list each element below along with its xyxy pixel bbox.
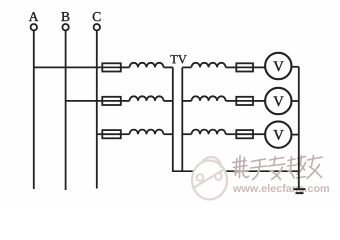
wire phase B vertical	[65, 31, 67, 191]
label C	[93, 12, 101, 21]
wire branch 3 right of core	[182, 133, 191, 135]
TV core line right	[181, 67, 183, 171]
wire	[226, 100, 237, 102]
inductor L5	[192, 96, 226, 101]
wire	[121, 66, 130, 68]
fuse F3	[102, 130, 121, 138]
wire phase C vertical	[96, 31, 98, 189]
terminal A	[31, 24, 37, 30]
TV neutral bottom wire	[172, 170, 299, 172]
wire	[253, 100, 265, 102]
inductor L3	[130, 130, 164, 135]
terminal C	[94, 24, 100, 30]
watermark text dianzifashaoyou	[233, 156, 323, 180]
fuse F5	[236, 97, 253, 105]
watermark text www.elecfans.com	[233, 184, 329, 192]
wire branch 2 left	[66, 100, 103, 102]
wire	[226, 133, 237, 135]
inductor L2	[130, 96, 164, 101]
wire	[121, 100, 130, 102]
wire phase A vertical	[33, 31, 35, 190]
wire	[121, 133, 130, 135]
inductor L4	[192, 63, 226, 68]
wire branch 2 right of core	[182, 100, 191, 102]
fuse F1	[102, 63, 121, 71]
voltmeter V3	[265, 121, 291, 147]
wire branch 3 left	[97, 133, 103, 135]
label A	[29, 12, 39, 21]
voltmeter V2	[265, 88, 291, 114]
wire	[164, 100, 173, 102]
wire	[164, 133, 173, 135]
ground	[294, 189, 306, 193]
wire V1 to bus	[291, 66, 299, 68]
terminal B	[62, 24, 68, 30]
label TV	[170, 55, 186, 63]
voltmeter V1	[265, 53, 291, 79]
watermark logo	[192, 157, 227, 200]
wire	[164, 66, 173, 68]
TV core line left	[172, 67, 174, 171]
wire	[253, 66, 265, 68]
wire branch 1 right of core	[182, 66, 191, 68]
inductor L1	[130, 63, 164, 68]
bus right vertical	[298, 67, 300, 189]
label B	[61, 12, 69, 21]
fuse F6	[236, 130, 253, 138]
inductor L6	[192, 130, 226, 135]
fuse F2	[102, 97, 121, 105]
wire V2 to bus	[291, 100, 299, 102]
wire V3 to bus	[291, 134, 299, 136]
wire	[226, 66, 237, 68]
fuse F4	[236, 63, 253, 71]
wire	[253, 133, 265, 135]
wire branch 1 left	[34, 66, 103, 68]
